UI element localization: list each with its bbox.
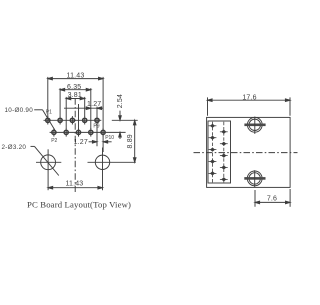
dimension 3.81 — [66, 97, 85, 129]
screw bottom — [244, 170, 265, 187]
dimension 17.6 — [208, 97, 291, 115]
svg-text:2-Ø3.20: 2-Ø3.20 — [2, 144, 27, 151]
pin P4 — [64, 128, 68, 136]
pin P8 — [89, 128, 93, 136]
connector body outline (right view) — [207, 117, 291, 187]
pin P1 — [46, 116, 50, 124]
mounting hole left (Ø3.20) — [36, 149, 61, 190]
dimension 6.35 — [60, 88, 91, 129]
svg-text:17.6: 17.6 — [242, 95, 256, 102]
svg-text:P2: P2 — [51, 138, 57, 144]
svg-text:2.54: 2.54 — [117, 94, 124, 108]
pin P9 — [95, 116, 99, 124]
wire: top row extension to right (2.54/8.89 reference) — [112, 119, 138, 121]
node: extension line through P6 column — [78, 104, 80, 136]
node: horizontal centerline right view (dashed) — [194, 152, 298, 154]
dimension 11.43 bottom — [48, 186, 102, 189]
dimension 1.27 upper right — [64, 107, 103, 147]
svg-text:1.27: 1.27 — [87, 101, 101, 108]
connector pins left column (diamonds) — [210, 124, 215, 176]
svg-text:P9: P9 — [93, 124, 99, 130]
pin P5 — [70, 116, 74, 124]
svg-text:P1: P1 — [46, 110, 52, 116]
dimension 2.54 (row spacing) — [119, 111, 122, 139]
pin P3 — [58, 116, 62, 124]
leader 2-Ø3.20 — [31, 146, 59, 175]
svg-text:11.43: 11.43 — [65, 181, 83, 188]
mounting hole right (Ø3.20) — [88, 148, 136, 191]
connector pin-field box — [208, 121, 231, 183]
connector pin cross bars left column — [209, 126, 217, 174]
wire: bottom pin row centerline — [50, 131, 126, 133]
svg-text:8.89: 8.89 — [127, 134, 134, 148]
pin P10 — [101, 128, 105, 136]
dimension 1.27 lower (row stagger) — [89, 141, 112, 144]
svg-text:3.81: 3.81 — [68, 92, 82, 99]
dimension 8.89 — [133, 120, 136, 162]
svg-text:1.27: 1.27 — [74, 139, 88, 146]
svg-text:PC Board Layout(Top View): PC Board Layout(Top View) — [27, 199, 131, 209]
pin P2 — [52, 128, 56, 136]
pin P7 — [83, 116, 87, 124]
connector pins right column (diamonds) — [221, 130, 226, 182]
dimension 11.43 top — [48, 77, 103, 152]
svg-text:6.35: 6.35 — [67, 84, 81, 91]
svg-text:P10: P10 — [105, 135, 114, 141]
pin P6 — [76, 128, 80, 136]
svg-text:11.43: 11.43 — [67, 72, 85, 79]
node: pin column centerline right (dashed) — [223, 122, 225, 183]
wire: top pin row centerline — [44, 119, 102, 121]
svg-text:7.6: 7.6 — [267, 196, 277, 203]
leader 10-Ø0.90 — [34, 110, 55, 130]
svg-text:10-Ø0.90: 10-Ø0.90 — [5, 107, 34, 114]
node: vertical centerline (dashed) — [74, 98, 76, 192]
dimension 7.6 — [255, 189, 290, 207]
node: pin column centerline left (dashed) — [212, 122, 214, 183]
screw top — [244, 117, 265, 134]
connector pin cross bars right column — [220, 132, 228, 180]
